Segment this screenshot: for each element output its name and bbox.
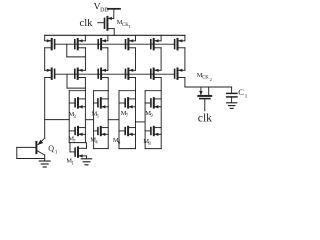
- svg-text:CK: CK: [202, 76, 209, 81]
- svg-text:1: 1: [245, 94, 248, 100]
- svg-text:2: 2: [210, 77, 212, 82]
- svg-text:clk: clk: [80, 18, 94, 29]
- svg-text:Q: Q: [48, 144, 54, 153]
- svg-text:1: 1: [55, 149, 58, 155]
- svg-text:DD: DD: [100, 7, 109, 13]
- svg-text:1: 1: [129, 24, 131, 29]
- svg-text:clk: clk: [198, 112, 212, 125]
- svg-text:C: C: [238, 87, 244, 97]
